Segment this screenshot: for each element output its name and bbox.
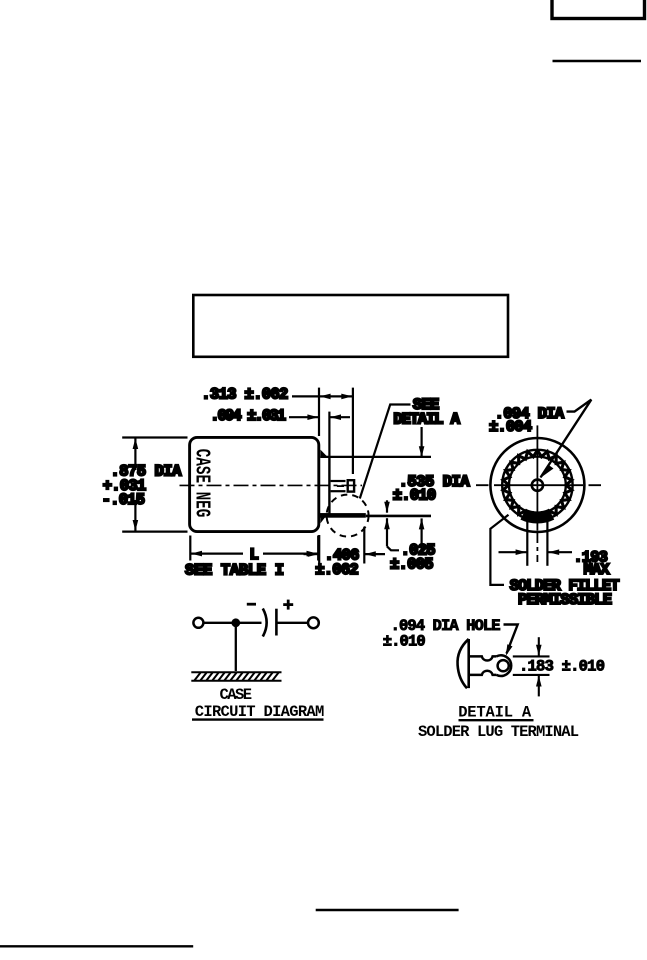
svg-text:MAX: MAX (584, 561, 611, 579)
svg-text:±.004: ±.004 (489, 418, 532, 436)
svg-text:.313 ±.062: .313 ±.062 (201, 385, 288, 403)
wire left to junction (204, 622, 262, 624)
top solder fillet wedge (320, 450, 328, 458)
capacitor straight positive plate (275, 609, 278, 636)
.875 DIA dimension (122, 436, 187, 438)
junction dot (231, 618, 240, 627)
solder fillet solid arc (523, 514, 552, 517)
solder fillet leader (490, 515, 508, 585)
.406 dimension (363, 527, 365, 564)
svg-text:-.015: -.015 (102, 491, 146, 509)
svg-text:DETAIL A: DETAIL A (458, 704, 532, 722)
.094 dia hole leader (504, 625, 518, 654)
svg-text:±.005: ±.005 (390, 556, 434, 574)
capacitor curved negative plate (263, 609, 267, 637)
table I placeholder box (193, 295, 508, 357)
bottom left line (0, 945, 193, 947)
extension line body right edge (A) (318, 388, 320, 436)
case hatched bar (191, 672, 281, 681)
plus sign (283, 603, 293, 606)
svg-text:SEE TABLE I: SEE TABLE I (185, 561, 284, 579)
end view outer case circle (490, 438, 584, 532)
seal bottom extension line for .535 (366, 515, 431, 518)
title block box top right (552, 0, 645, 19)
body horizontal centerline (180, 484, 363, 486)
.183 arrows (538, 637, 540, 656)
vertical centerline (536, 425, 538, 530)
extension line seal edge (C) (328, 412, 330, 456)
minus sign (247, 603, 256, 606)
svg-text:CASE NEG: CASE NEG (190, 449, 213, 518)
end view ring outer circle (502, 450, 572, 520)
svg-text:DETAIL A: DETAIL A (393, 411, 460, 429)
svg-text:±.010: ±.010 (383, 633, 426, 651)
extension line lug tip (B) (352, 388, 354, 474)
left terminal circle (193, 618, 203, 628)
detail reference dashed circle (327, 495, 369, 537)
.193 MAX dimension (499, 551, 527, 553)
.094 DIA leader arrow (541, 400, 592, 478)
ring zigzag hatch (503, 450, 572, 520)
see detail A leader (360, 405, 411, 499)
svg-text:PERMISSIBLE: PERMISSIBLE (518, 591, 612, 609)
.025 dimension (386, 500, 388, 512)
lug hole (498, 660, 509, 671)
vertical centerline dashes below (536, 533, 538, 566)
L dimension (189, 536, 191, 561)
solder lug seal crescent (458, 639, 469, 688)
svg-text:CASE: CASE (220, 686, 253, 704)
horizontal centerline (476, 484, 601, 486)
center terminal hole (532, 480, 543, 491)
solder lug outline (470, 655, 511, 676)
svg-text:SOLDER LUG TERMINAL: SOLDER LUG TERMINAL (418, 723, 579, 741)
center bottom line (316, 909, 459, 911)
wire junction to case (235, 623, 237, 671)
end view ring inner circle (509, 457, 566, 514)
right terminal circle (308, 617, 319, 628)
revision line top right (553, 60, 642, 62)
.535 DIA dimension arrows (421, 427, 423, 457)
lug edge lines below circle (526, 521, 528, 566)
detail A underline (459, 719, 534, 721)
upper terminal lug side view (331, 480, 355, 491)
svg-text:.094 ±.031: .094 ±.031 (210, 407, 286, 425)
wire plate to right terminal (276, 622, 307, 624)
lower lug thick bar (319, 513, 366, 518)
svg-text:.183 ±.010: .183 ±.010 (519, 658, 605, 676)
svg-text:±.010: ±.010 (393, 486, 437, 504)
svg-text:±.062: ±.062 (315, 561, 359, 579)
seal top edge / .535 extension line (320, 456, 431, 458)
.313 dimension line (292, 395, 352, 397)
seal right edge line (328, 456, 330, 514)
capacitor body case outline (190, 437, 319, 531)
bottom solder fillet wedge (320, 513, 328, 523)
circuit diagram underline (192, 718, 324, 720)
.094 dimension arrows (289, 416, 318, 418)
.183 extension lines (513, 655, 550, 657)
